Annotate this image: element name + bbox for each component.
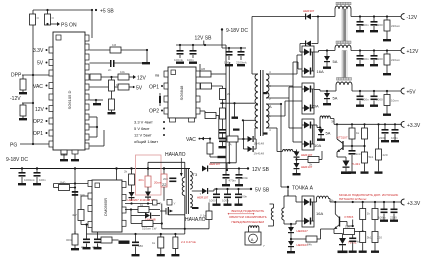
inductor L1 +5V winding: [334, 82, 352, 91]
resistor U 1k aux: [200, 203, 212, 229]
resistor divider 2: [372, 202, 378, 231]
svg-text:100n: 100n: [222, 199, 229, 203]
svg-text:KT815: KT815: [345, 215, 354, 219]
svg-text:12V SB: 12V SB: [195, 36, 213, 42]
resistor low2 5k1: [359, 220, 372, 253]
svg-text:HER107: HER107: [209, 162, 221, 166]
svg-text:НАЧАЛО: НАЧАЛО: [185, 217, 206, 223]
svg-text:9-18V DC: 9-18V DC: [226, 28, 248, 34]
wire vertical bus left: [32, 75, 34, 103]
resistor R2: [45, 14, 51, 25]
svg-text:5A: 5A: [333, 59, 338, 64]
wire input rail: [10, 168, 190, 170]
capacitor C2: [34, 169, 47, 184]
svg-text:100n: 100n: [362, 23, 369, 27]
resistor R8 vertical: [109, 99, 115, 112]
winding extra coil vertical: [282, 208, 291, 224]
svg-text:100mk: 100mk: [174, 58, 184, 62]
svg-text:-12V: -12V: [407, 15, 418, 21]
diode D13 5VSB: [192, 188, 251, 200]
ground: [60, 159, 68, 161]
svg-text:2200: 2200: [390, 216, 397, 220]
svg-text:VAC: VAC: [186, 137, 196, 143]
primary connections: [255, 104, 258, 106]
resistor feed: [54, 181, 89, 191]
svg-text:OP1: OP1: [33, 131, 43, 137]
capacitor: [384, 124, 386, 129]
svg-text:2k: 2k: [309, 163, 313, 167]
svg-text:+3.3V: +3.3V: [407, 201, 421, 207]
ground: [19, 92, 27, 94]
wire row 203.5: [125, 203, 160, 205]
transistor Q1: [337, 124, 348, 160]
transformer T2 primary winding: [255, 74, 258, 128]
capacitor C4: [174, 45, 184, 62]
wire vertical buses: [296, 55, 298, 74]
node -12V input: [10, 96, 33, 105]
resistor 1k fb: [152, 234, 165, 256]
caps on rail: [378, 202, 388, 222]
coil after box4: [314, 196, 334, 202]
net 5V arrow: [129, 86, 143, 92]
right pins U2: [196, 71, 200, 77]
svg-text:20A: 20A: [312, 104, 319, 109]
wire source row: [162, 228, 209, 230]
svg-text:2200: 2200: [376, 23, 383, 27]
net 12V arrow: [129, 75, 147, 82]
resistor lower 5k1: [361, 152, 374, 174]
pin label OP1: [149, 85, 163, 91]
svg-text:1M: 1M: [112, 43, 117, 47]
svg-text:10A: 10A: [314, 143, 321, 148]
svg-text:TL431: TL431: [352, 162, 361, 166]
transformer T3 primary: [182, 178, 184, 196]
resistor small h: [224, 136, 244, 147]
transformer T3 sec upper: [190, 172, 192, 190]
svg-text:16A: 16A: [317, 69, 324, 74]
op-amp U2 PWM IC: [168, 67, 196, 118]
svg-text:3.3 V 4вит: 3.3 V 4вит: [134, 120, 153, 125]
svg-text:+12V: +12V: [407, 49, 419, 55]
svg-text:510om 1W: 510om 1W: [142, 227, 157, 231]
svg-text:пв: пв: [155, 73, 159, 78]
resistor divider 2: [364, 124, 366, 128]
ground: [18, 183, 26, 185]
svg-text:PG: PG: [10, 143, 17, 149]
ground: [142, 62, 150, 64]
terminal: [401, 14, 404, 20]
ground: [33, 183, 41, 185]
wire IC to gate cluster: [125, 209, 131, 211]
winding extra coil vertical 2: [268, 204, 274, 226]
svg-text:A: A: [251, 237, 254, 242]
resistor snub colA: [124, 167, 135, 192]
node PG output: [10, 143, 49, 149]
capacitor fb: [171, 234, 196, 256]
svg-text:PS ON: PS ON: [61, 23, 77, 29]
capacitor 47n small: [153, 200, 162, 206]
capacitor chain: [219, 119, 227, 148]
svg-text:9-18V DC: 9-18V DC: [6, 157, 28, 163]
wire: [90, 49, 111, 51]
terminal: [401, 199, 404, 205]
resistor 24k bottom: [291, 229, 334, 247]
diode 5A on +3.3: [317, 126, 331, 140]
diode aux 1: [294, 150, 313, 164]
wire row 87: [90, 86, 119, 88]
op-amp U1 supervisor IC: [53, 32, 85, 150]
svg-text:A: A: [269, 104, 272, 109]
rectifier 16A box1: [302, 46, 324, 77]
transformer T2 secondary winding upper: [266, 74, 269, 98]
svg-text:HER107: HER107: [297, 229, 309, 233]
svg-text:1000: 1000: [376, 98, 383, 102]
svg-text:ОБМОТКИ СФАЗИРОВАТЬ: ОБМОТКИ СФАЗИРОВАТЬ: [229, 215, 267, 219]
diode clamp colB: [145, 192, 151, 201]
meter box A: [245, 232, 265, 248]
wire to box4 inputs: [287, 190, 289, 196]
wire junction row: [220, 102, 238, 104]
resistor under IC: [101, 237, 130, 244]
ground: [19, 118, 27, 120]
wire 12VSB down to caps: [176, 44, 226, 46]
wire box2 out to +5 rail: [314, 89, 320, 91]
resistor bottom left: [66, 231, 79, 250]
net 9-18V DC top middle: [221, 28, 249, 34]
polarity bar: [192, 207, 199, 209]
capacitor bottom a: [81, 225, 91, 250]
svg-text:100n: 100n: [362, 98, 369, 102]
svg-text:1k: 1k: [116, 83, 120, 87]
left pins of U1: [49, 47, 53, 147]
ground: [93, 103, 101, 105]
svg-text:OP1: OP1: [149, 85, 159, 91]
diode small at OP rows: [159, 93, 161, 106]
transformer T3: [186, 169, 198, 214]
svg-text:2.2 0.47mk: 2.2 0.47mk: [181, 240, 196, 244]
rectifier 16A box4: [302, 196, 323, 227]
inductor L1 -12V winding: [318, 6, 352, 17]
svg-text:SG6105 D: SG6105 D: [67, 91, 72, 110]
svg-text:KT3107: KT3107: [337, 135, 348, 139]
inductor L1 common core: [336, 2, 352, 80]
resistor right row2: [200, 83, 223, 89]
node +5SB junctions: [46, 9, 48, 11]
right pins of U1: [85, 35, 89, 149]
net VAC mid: [186, 137, 210, 143]
resistor divider 1: [351, 124, 353, 128]
svg-text:1k: 1k: [367, 212, 371, 216]
svg-text:1N4148: 1N4148: [254, 142, 265, 146]
resistor low3 220: [371, 232, 382, 253]
transformer T3 sec lower: [190, 195, 192, 208]
svg-text:5k1: 5k1: [369, 155, 374, 159]
zener TL431 low: [338, 238, 357, 253]
resistor R6: [118, 84, 129, 90]
wire rail jog to T3: [147, 167, 149, 169]
capacitor C5: [187, 45, 197, 62]
wire + dark bar: [234, 103, 236, 116]
capacitor: [359, 17, 361, 22]
pin label OP2: [33, 119, 48, 125]
svg-text:-12V: -12V: [10, 96, 21, 102]
svg-text:1k: 1k: [140, 203, 144, 207]
svg-text:20v: 20v: [163, 177, 168, 181]
svg-text:5V SB: 5V SB: [255, 188, 270, 194]
svg-text:10k: 10k: [345, 225, 350, 229]
rectifier 10A box3: [302, 119, 321, 150]
wire: [334, 123, 402, 125]
capacitor bottom b: [92, 232, 102, 249]
svg-text:ВЫХОД ПОДКЛЮЧИТЬ: ВЫХОД ПОДКЛЮЧИТЬ: [232, 209, 265, 213]
svg-text:1k: 1k: [152, 241, 156, 245]
wire: [352, 16, 401, 18]
wire rail: [330, 201, 402, 203]
wire box3 out to 3.3 coil: [314, 124, 317, 126]
svg-text:2n: 2n: [108, 68, 112, 72]
svg-text:22: 22: [162, 182, 167, 187]
wire box1 out to +12 rail: [314, 51, 319, 53]
svg-text:12 V 5вит: 12 V 5вит: [134, 133, 152, 138]
wire vertical bus: [74, 169, 76, 192]
pin label OP1: [33, 131, 48, 137]
resistor aux: [297, 151, 323, 167]
svg-text:1A: 1A: [228, 143, 232, 147]
secondary tap wires to bus: [266, 73, 297, 75]
diode 5A on +5: [323, 90, 338, 106]
wire down right: [235, 142, 237, 163]
svg-text:1N4148: 1N4148: [254, 152, 265, 156]
resistor R7 vertical: [109, 77, 120, 99]
wire: [32, 10, 34, 14]
svg-text:5A: 5A: [326, 131, 331, 136]
svg-text:общий 14вит: общий 14вит: [134, 139, 158, 144]
resistor drive 2: [220, 108, 226, 119]
capacitor startup: [72, 182, 85, 197]
svg-text:4k7: 4k7: [72, 213, 77, 217]
wire rows lower: [90, 116, 98, 118]
svg-text:100n: 100n: [242, 176, 249, 180]
bottom pins U2: [170, 118, 176, 122]
diode D1: [303, 9, 319, 44]
base network capacitor: [343, 139, 363, 174]
svg-text:У 1к: У 1к: [200, 214, 206, 218]
resistor 510om: [131, 221, 163, 231]
svg-text:680: 680: [138, 244, 143, 248]
resistor VAC: [207, 138, 218, 158]
node DPP input: [11, 73, 49, 79]
capacitor snub colB red: [139, 169, 152, 192]
svg-text:100n: 100n: [39, 178, 46, 182]
svg-text:20om: 20om: [154, 181, 162, 185]
svg-text:12V: 12V: [35, 107, 45, 113]
wire HB pin to top: [199, 64, 201, 71]
pin label 5V: [37, 61, 48, 67]
svg-text:OP2: OP2: [33, 119, 43, 125]
svg-text:+5 SB: +5 SB: [100, 9, 114, 15]
svg-text:HB: HB: [201, 67, 205, 71]
right pins U3: [122, 182, 126, 188]
svg-text:VAC: VAC: [33, 84, 43, 90]
wire bus right of U1: [90, 99, 104, 101]
resistor R4: [90, 74, 101, 80]
resistor R1: [30, 14, 36, 25]
diode D12 12VSB: [190, 162, 248, 172]
capacitor left of fb: [132, 234, 144, 256]
svg-text:220om: 220om: [391, 58, 401, 62]
svg-text:ТОЧКА А: ТОЧКА А: [292, 186, 314, 192]
diode clamp colA: [129, 192, 135, 201]
capacitor C3: [90, 60, 143, 72]
resistor snub colC red: [154, 167, 167, 201]
capacitor: [394, 124, 396, 129]
resistor: [20, 105, 26, 116]
resistor HB: [200, 45, 226, 168]
svg-text:12V SB: 12V SB: [252, 167, 270, 173]
svg-text:1k: 1k: [356, 131, 360, 135]
transistor Q4: [334, 202, 364, 238]
resistor DPP divider: [20, 75, 26, 92]
svg-text:5V: 5V: [136, 86, 143, 92]
pin label OP2: [149, 109, 163, 115]
resistor divider 1k: [360, 202, 371, 220]
capacitor 22n snubber: [162, 177, 176, 187]
svg-text:2200: 2200: [376, 57, 383, 61]
transistor Q3 mosfet: [160, 196, 185, 216]
svg-text:3k: 3k: [331, 120, 335, 124]
text winding info: [134, 120, 165, 145]
capacitor C7: [236, 48, 247, 65]
svg-text:DPP: DPP: [11, 73, 22, 79]
svg-text:24k: 24k: [307, 243, 312, 247]
net 12V SB out: [247, 167, 270, 173]
svg-text:3.3V: 3.3V: [33, 48, 44, 54]
terminal: [401, 121, 404, 127]
net ТОЧКА А: [287, 186, 314, 192]
capacitor Y small: [167, 200, 176, 206]
svg-text:5k1: 5k1: [367, 236, 372, 240]
zener TL431: [341, 161, 360, 175]
wire rail to IC vcc: [115, 167, 117, 169]
red arrows text: [228, 209, 267, 224]
diode aux 2: [293, 163, 313, 175]
coil bottom: [249, 226, 259, 228]
svg-text:10om: 10om: [391, 99, 399, 103]
svg-text:T3: T3: [193, 172, 198, 177]
transformer T2 core: [261, 70, 264, 136]
net PS ON: [46, 23, 48, 25]
inductor L1 +12V winding: [334, 45, 352, 51]
svg-text:220om: 220om: [391, 24, 401, 28]
svg-text:5 V 6вит: 5 V 6вит: [134, 126, 150, 131]
diode 1N4148 b: [243, 139, 264, 156]
svg-text:220: 220: [383, 153, 388, 157]
diode 1N4148 gate: [131, 210, 160, 224]
svg-text:100m: 100m: [378, 216, 386, 220]
svg-text:16A: 16A: [316, 211, 323, 216]
svg-text:ПИТАНИЯ 12 Вольт: ПИТАНИЯ 12 Вольт: [339, 197, 367, 201]
op-amp U3 DM0565R: [92, 180, 122, 232]
ground: [189, 62, 197, 64]
resistor: [386, 17, 388, 21]
resistor R5: [118, 70, 129, 80]
svg-text:12V: 12V: [137, 76, 147, 82]
resistor R3: [110, 43, 148, 62]
svg-text:100n: 100n: [224, 61, 231, 65]
net 5V SB out: [250, 188, 270, 194]
ground: [176, 62, 184, 64]
svg-text:220: 220: [377, 236, 382, 240]
svg-text:1000: 1000: [209, 199, 216, 203]
svg-text:2k: 2k: [227, 92, 231, 96]
pin label 3.3V: [33, 48, 48, 54]
coil aux: [281, 147, 297, 152]
svg-text:2200mk: 2200mk: [236, 61, 247, 65]
caps on 12VSB: [222, 169, 237, 187]
rectifier 20A box2: [302, 83, 319, 114]
svg-text:100n: 100n: [362, 57, 369, 61]
wire -12V feed: [252, 16, 305, 18]
capacitor C1: [19, 169, 36, 184]
bottom pins of U1: [61, 151, 67, 155]
svg-text:10k: 10k: [120, 70, 125, 74]
wire from point A down: [287, 187, 289, 196]
left pins U2: [164, 71, 168, 77]
resistor drive 1: [220, 86, 231, 108]
ground: [108, 112, 116, 114]
wire top rail: [33, 9, 92, 11]
svg-text:OP2: OP2: [149, 109, 159, 115]
diode 5A on +12: [323, 49, 338, 69]
capacitor: [373, 17, 375, 22]
svg-text:100n: 100n: [187, 58, 194, 62]
net 12V SB label top: [195, 36, 213, 46]
svg-text:HER107: HER107: [197, 196, 209, 200]
svg-text:5V: 5V: [37, 61, 44, 67]
wire drive bus 2: [228, 62, 230, 163]
svg-text:100n: 100n: [391, 136, 398, 140]
resistor lower 220: [375, 124, 388, 173]
svg-text:Y: Y: [174, 202, 176, 206]
caps on 5VSB: [209, 188, 221, 206]
resistor 1k gate: [131, 203, 160, 213]
svg-text:ПЕРЕД ВКЛЮЧЕНИЕМ: ПЕРЕД ВКЛЮЧЕНИЕМ: [232, 220, 265, 224]
left pins U3: [88, 181, 92, 187]
svg-text:47: 47: [158, 202, 162, 206]
resistor sense: [72, 196, 88, 226]
svg-text:5A: 5A: [333, 96, 338, 101]
svg-text:+5V: +5V: [407, 90, 417, 96]
svg-text:100n: 100n: [241, 195, 248, 199]
wire row 77: [90, 76, 119, 78]
svg-text:20n: 20n: [139, 178, 144, 182]
svg-text:+3.3V: +3.3V: [407, 123, 421, 129]
svg-text:HER207 1N4148 UF: HER207 1N4148 UF: [128, 198, 156, 202]
wire fb row2: [87, 233, 185, 235]
svg-text:HER307: HER307: [303, 9, 315, 13]
capacitor C6: [224, 48, 233, 65]
T3 feedback winding wires: [184, 215, 186, 234]
diode D2: [300, 41, 318, 53]
pin label VAC: [33, 84, 48, 90]
svg-text:0R4: 0R4: [66, 238, 72, 242]
svg-text:470m: 470m: [229, 179, 237, 183]
wire right row4: [200, 110, 205, 112]
diodes below point A: [288, 223, 308, 241]
svg-text:SG6848: SG6848: [179, 85, 184, 100]
svg-text:НАЧАЛО: НАЧАЛО: [165, 152, 186, 158]
svg-text:DM0565R: DM0565R: [103, 198, 108, 216]
